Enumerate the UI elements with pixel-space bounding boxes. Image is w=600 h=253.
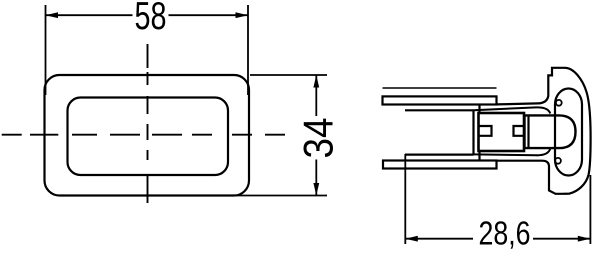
dimension 28,6 line (405, 238, 590, 240)
housing lower inner line (405, 154, 474, 156)
dimension 28,6 arrow right (578, 236, 591, 242)
dimension 34 extension line top (250, 74, 327, 76)
lens profile outline (497, 68, 591, 194)
dimension 58 extension line left (45, 5, 47, 95)
svg-text:28,6: 28,6 (479, 215, 531, 252)
dimension 58 extension line right (247, 5, 249, 95)
horizontal centerline (2, 134, 286, 136)
side view bottom mounting plate (383, 161, 497, 169)
svg-text:34: 34 (295, 118, 342, 159)
lens inner surface (555, 89, 582, 176)
bulb (525, 115, 576, 148)
clip hook top (556, 100, 562, 106)
housing rear wall (472, 110, 474, 154)
dimension 34 arrow bottom (313, 183, 319, 196)
dimension 34 extension line bottom (234, 195, 327, 197)
housing upper inner line (405, 109, 474, 111)
clip hook bottom (555, 158, 561, 164)
dimension 58 arrow right (236, 12, 249, 18)
top plate upper face line (383, 87, 497, 89)
socket tab left (480, 126, 492, 136)
front view lens inner outline (68, 98, 229, 176)
socket tab right (514, 126, 524, 136)
socket wall lower extension (478, 151, 480, 161)
dimension 28,6 extension line left (404, 154, 406, 244)
bulb base flange (527, 115, 529, 148)
socket wall upper extension (478, 105, 480, 113)
side view top mounting plate (383, 96, 497, 104)
dimension 58 arrow left (46, 12, 59, 18)
dimension 28,6 extension from lens face (589, 175, 591, 244)
dimension 28,6 arrow left (405, 236, 418, 242)
dimension 34 line (315, 75, 317, 196)
bulb socket box (479, 113, 525, 151)
dimension 58 line (46, 14, 249, 16)
bulb collar bottom (474, 149, 551, 156)
bulb collar top (474, 107, 551, 113)
dimension 34 arrow top (313, 75, 319, 88)
vertical centerline (147, 44, 149, 206)
front view outer body outline (45, 75, 250, 196)
svg-text:58: 58 (135, 0, 167, 38)
